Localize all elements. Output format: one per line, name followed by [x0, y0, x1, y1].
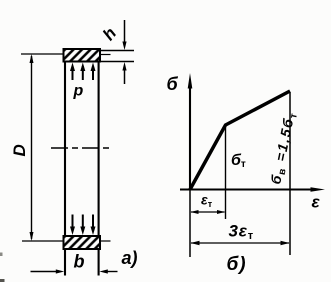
svg-text:b: b [74, 252, 85, 272]
svg-text:б): б) [227, 254, 247, 275]
h top stub line [101, 50, 134, 52]
centerline of column (dash-dot) [51, 147, 111, 149]
h dimension upper arrow (pointing down) [122, 20, 126, 50]
h bottom stub line [101, 61, 134, 63]
D dimension line with arrows [30, 54, 34, 241]
stress-strain curve [190, 91, 290, 190]
pressure arrow top 2 [80, 63, 85, 81]
D top extension line [21, 53, 63, 55]
svg-text:а): а) [122, 248, 138, 268]
pressure arrow bottom 3 [91, 215, 96, 236]
h dimension lower arrow (pointing up) [122, 62, 126, 84]
b dimension right arrow [99, 269, 117, 273]
svg-text:p: p [73, 83, 84, 100]
scan smudge bottom-left corner [0, 279, 5, 282]
svg-text:ε: ε [312, 193, 321, 212]
epsilon_T dimension [191, 210, 226, 214]
sigma axis (vertical) [188, 73, 193, 190]
epsilon axis (horizontal) [180, 187, 325, 191]
column left wall [64, 49, 66, 276]
bottom cap (hatched) [64, 236, 101, 249]
b dimension left arrow [31, 269, 65, 273]
scan smudge left edge [0, 253, 3, 257]
D top right stub [101, 54, 111, 56]
right extension line [289, 92, 291, 255]
pressure arrow bottom 2 [80, 215, 85, 236]
pressure arrow top 1 [70, 63, 75, 81]
pressure arrow bottom 1 [70, 215, 75, 236]
D bottom extension line [22, 240, 63, 242]
pressure arrow top 3 [91, 63, 96, 81]
knee drop line [225, 126, 227, 219]
D bottom right stub [101, 240, 111, 242]
top cap (hatched) [64, 49, 101, 62]
svg-text:б: б [167, 74, 179, 94]
origin extension line [189, 190, 191, 258]
3 epsilon_T dimension [191, 241, 290, 245]
column right wall [98, 49, 100, 276]
svg-text:D: D [10, 144, 29, 156]
